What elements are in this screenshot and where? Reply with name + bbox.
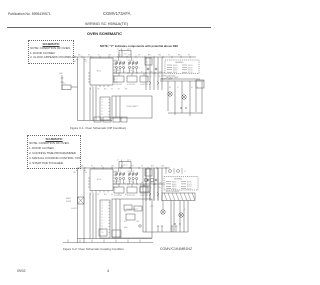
- svg-text:GY: GY: [184, 171, 187, 173]
- svg-text:BK: BK: [78, 55, 81, 57]
- svg-text:DLB RLY: DLB RLY: [115, 60, 122, 62]
- svg-text:W: W: [188, 55, 190, 57]
- svg-text:T5: T5: [101, 114, 103, 116]
- svg-text:T3: T3: [101, 211, 103, 213]
- svg-text:T9: T9: [101, 229, 103, 231]
- svg-text:BK: BK: [81, 166, 84, 168]
- svg-text:RY: RY: [146, 62, 149, 64]
- svg-text:MAG: MAG: [124, 226, 128, 229]
- svg-text:T6: T6: [101, 220, 103, 222]
- svg-text:BR: BR: [125, 89, 128, 91]
- svg-text:EOC: EOC: [97, 71, 102, 73]
- svg-text:W: W: [177, 87, 179, 89]
- svg-text:OVEN CAVITY: OVEN CAVITY: [126, 208, 139, 211]
- svg-text:BU: BU: [123, 72, 126, 74]
- svg-text:VT: VT: [118, 89, 120, 91]
- svg-text:TCO: TCO: [62, 83, 66, 85]
- svg-text:TCO: TCO: [124, 54, 128, 56]
- svg-text:R: R: [98, 55, 100, 57]
- svg-text:W: W: [91, 166, 93, 168]
- svg-text:SW: SW: [124, 211, 127, 213]
- svg-text:DOOR SW: DOOR SW: [114, 84, 122, 86]
- svg-text:BK: BK: [169, 87, 171, 89]
- svg-text:DOOR SW: DOOR SW: [140, 84, 148, 86]
- svg-text:3400W: 3400W: [71, 208, 77, 210]
- svg-text:T4: T4: [101, 111, 103, 113]
- svg-text:T0: T0: [101, 99, 103, 101]
- svg-text:GN: GN: [158, 55, 161, 57]
- svg-text:BR: BR: [151, 166, 154, 168]
- svg-text:BK: BK: [74, 61, 77, 63]
- svg-text:BU: BU: [123, 183, 126, 185]
- svg-text:W: W: [85, 172, 87, 174]
- svg-text:T0: T0: [101, 202, 103, 204]
- svg-text:OR: OR: [108, 55, 111, 57]
- svg-text:CAP: CAP: [136, 220, 139, 223]
- svg-text:OR: OR: [111, 166, 114, 168]
- svg-text:BR: BR: [150, 183, 153, 185]
- svg-text:T1: T1: [101, 205, 103, 207]
- svg-text:DOOR SW: DOOR SW: [127, 195, 135, 197]
- svg-text:BROIL: BROIL: [140, 184, 145, 186]
- svg-text:T2: T2: [101, 105, 103, 107]
- svg-text:DLB RLY: DLB RLY: [115, 171, 122, 173]
- svg-text:VT: VT: [138, 55, 141, 57]
- svg-text:TCO: TCO: [124, 165, 128, 167]
- svg-text:LEGEND: LEGEND: [175, 62, 184, 64]
- svg-text:GY: GY: [111, 89, 114, 91]
- svg-text:BK: BK: [159, 187, 162, 189]
- svg-text:N: N: [130, 49, 132, 51]
- svg-text:BROIL: BROIL: [187, 189, 192, 191]
- svg-text:N: N: [130, 160, 132, 162]
- svg-text:W: W: [88, 55, 90, 57]
- svg-text:BROIL ELEMENT: BROIL ELEMENT: [166, 191, 179, 193]
- svg-text:T5: T5: [101, 217, 103, 219]
- svg-text:L1: L1: [117, 49, 119, 51]
- svg-text:T10: T10: [101, 232, 104, 234]
- svg-text:T8: T8: [101, 226, 103, 228]
- svg-text:BR: BR: [148, 55, 151, 57]
- svg-text:DOOR SW: DOOR SW: [140, 195, 148, 197]
- svg-text:BK: BK: [178, 55, 181, 57]
- svg-text:VT: VT: [141, 72, 143, 74]
- svg-text:EOC: EOC: [97, 179, 102, 181]
- svg-text:HI-V: HI-V: [124, 221, 128, 223]
- svg-text:VT: VT: [155, 187, 157, 189]
- svg-text:FAN MTR LAMP: FAN MTR LAMP: [166, 76, 179, 79]
- svg-text:VT: VT: [155, 76, 157, 78]
- svg-text:T3: T3: [101, 108, 103, 110]
- svg-text:GY: GY: [132, 183, 135, 185]
- svg-text:GY: GY: [131, 166, 134, 168]
- svg-text:BU: BU: [118, 55, 121, 57]
- svg-text:T1: T1: [101, 102, 103, 104]
- svg-text:YL: YL: [168, 55, 170, 57]
- svg-text:BU: BU: [104, 89, 107, 91]
- svg-text:L1: L1: [117, 160, 119, 162]
- svg-text:R: R: [151, 76, 153, 78]
- svg-text:GN: GN: [161, 166, 164, 168]
- svg-text:R: R: [151, 187, 153, 189]
- svg-text:GN: GN: [147, 187, 150, 189]
- svg-text:OR: OR: [97, 194, 100, 196]
- svg-text:GY: GY: [132, 72, 135, 74]
- svg-text:OR: OR: [97, 89, 100, 91]
- svg-text:T6: T6: [101, 117, 103, 119]
- svg-text:W: W: [85, 61, 87, 63]
- svg-text:BR: BR: [150, 72, 153, 74]
- svg-text:DLB RLY: DLB RLY: [128, 60, 135, 62]
- svg-text:R: R: [101, 166, 103, 168]
- svg-text:T4: T4: [101, 214, 103, 216]
- svg-text:DOOR SW: DOOR SW: [127, 84, 135, 86]
- svg-text:OVEN CAVITY: OVEN CAVITY: [126, 105, 139, 108]
- svg-text:GY: GY: [191, 87, 193, 89]
- svg-text:T2: T2: [101, 208, 103, 210]
- svg-text:DOOR SW: DOOR SW: [114, 195, 122, 197]
- svg-text:VT: VT: [141, 166, 144, 168]
- svg-text:BROIL: BROIL: [188, 72, 193, 74]
- svg-text:GN: GN: [147, 76, 150, 78]
- svg-text:GND: GND: [59, 73, 64, 75]
- svg-text:R: R: [90, 89, 92, 91]
- svg-text:T7: T7: [101, 223, 103, 225]
- svg-text:ELEM: ELEM: [66, 201, 71, 203]
- svg-text:DLB RLY: DLB RLY: [128, 171, 135, 173]
- svg-text:W: W: [184, 209, 186, 211]
- svg-text:BK: BK: [74, 172, 77, 174]
- svg-text:BAKE: BAKE: [66, 197, 72, 200]
- svg-text:BAKE: BAKE: [173, 71, 178, 74]
- svg-text:BU: BU: [104, 194, 107, 196]
- svg-text:LEGEND: LEGEND: [174, 179, 183, 181]
- svg-text:VT: VT: [116, 79, 118, 81]
- svg-text:R: R: [90, 194, 92, 196]
